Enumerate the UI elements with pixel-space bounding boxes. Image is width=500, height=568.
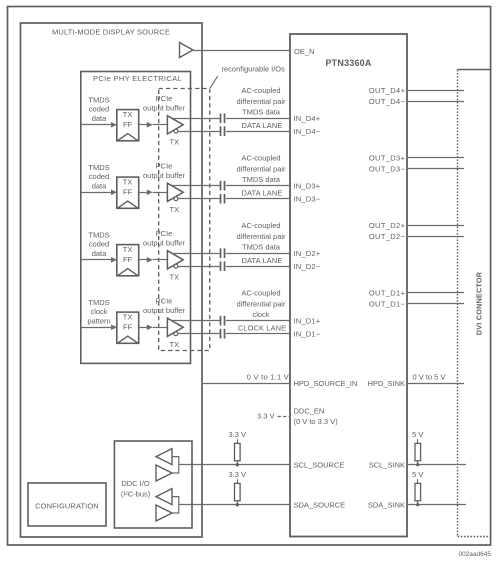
lead 5 V to resistor	[417, 479, 419, 483]
buffer DDC receiver (points left)	[156, 449, 172, 465]
wire buffer inverting output to IN_D2- (with AC coupling)	[178, 266, 220, 268]
svg-text:output buffer: output buffer	[143, 171, 185, 180]
block DVI CONNECTOR (dotted)	[458, 70, 491, 537]
wire SDA_SOURCE bus	[179, 504, 290, 506]
svg-text:TMDS data: TMDS data	[242, 175, 281, 184]
lead resistor to bus wire	[237, 461, 239, 465]
wire joining DDC buffer pair	[172, 457, 179, 473]
svg-text:IN_D2−: IN_D2−	[294, 262, 321, 271]
svg-text:IN_D1+: IN_D1+	[294, 316, 321, 325]
svg-text:data: data	[92, 114, 107, 123]
svg-text:clock: clock	[252, 310, 269, 319]
wire TX FF to PCIe output buffer channel D3	[139, 192, 148, 194]
lead resistor to bus wire	[417, 461, 419, 465]
wire OUT_D1+ to DVI connector	[407, 292, 464, 294]
wire OUT_D4- to DVI connector	[407, 101, 464, 103]
junction dot	[236, 463, 239, 466]
lead 3.3 V to resistor	[237, 439, 239, 443]
flip-flop TX FF channel D3	[117, 177, 139, 208]
svg-text:reconfigurable I/Os: reconfigurable I/Os	[222, 65, 286, 74]
svg-text:AC-coupled: AC-coupled	[241, 154, 280, 163]
svg-text:SCL_SINK: SCL_SINK	[369, 461, 405, 470]
flip-flop TX FF channel D4	[117, 110, 139, 141]
capacitor AC coupling on IN_D4+	[220, 113, 222, 123]
capacitor AC coupling on IN_D1-	[220, 329, 222, 339]
svg-text:OUT_D4−: OUT_D4−	[369, 97, 406, 106]
buffer PCIe TX channel D2	[167, 251, 183, 282]
svg-text:002aad645: 002aad645	[458, 551, 491, 558]
wire SCL_SINK bus to DVI connector	[407, 464, 466, 466]
wire buffer noninverting output to IN_D4+ (with AC coupling)	[171, 118, 220, 120]
svg-text:OUT_D4+: OUT_D4+	[369, 86, 406, 95]
svg-text:0 V to 5 V: 0 V to 5 V	[413, 372, 446, 381]
wire TMDS data into TX FF channel D4	[81, 124, 112, 126]
wire SDA_SINK bus to DVI connector	[407, 504, 466, 506]
capacitor AC coupling on IN_D2+	[220, 248, 222, 258]
svg-text:TX: TX	[170, 205, 180, 214]
svg-text:IN_D1−: IN_D1−	[294, 329, 321, 338]
svg-text:SDA_SINK: SDA_SINK	[368, 501, 405, 510]
wire OE_N	[193, 50, 290, 52]
resistor pull-up to 5 V	[415, 483, 421, 500]
svg-text:DATA LANE: DATA LANE	[241, 256, 282, 265]
svg-text:FF: FF	[123, 188, 133, 197]
svg-text:TMDS: TMDS	[88, 230, 109, 239]
wire stub DDC_EN	[278, 416, 291, 418]
svg-text:DDC_EN: DDC_EN	[294, 407, 325, 416]
svg-text:output buffer: output buffer	[143, 239, 185, 248]
wire buffer inverting output to IN_D3- (with AC coupling)	[178, 198, 220, 200]
svg-text:coded: coded	[89, 240, 109, 249]
svg-text:TMDS: TMDS	[88, 298, 109, 307]
svg-text:FF: FF	[123, 323, 133, 332]
svg-text:TX: TX	[170, 340, 180, 349]
wire OUT_D2+ to DVI connector	[407, 225, 464, 227]
block PCIe PHY ELECTRICAL	[81, 72, 191, 364]
flip-flop TX FF channel D1	[117, 312, 139, 343]
svg-text:CONFIGURATION: CONFIGURATION	[35, 502, 99, 511]
svg-text:HPD_SINK: HPD_SINK	[367, 379, 405, 388]
wire buffer inverting output to IN_D4- (with AC coupling)	[178, 131, 220, 133]
wire OUT_D2- to DVI connector	[407, 236, 464, 238]
svg-text:clock: clock	[90, 307, 107, 316]
capacitor AC coupling on IN_D4-	[220, 126, 222, 136]
wire SCL_SOURCE bus	[179, 464, 290, 466]
resistor pull-up to 5 V	[415, 443, 421, 460]
svg-text:TMDS: TMDS	[88, 163, 109, 172]
wire TX FF to PCIe output buffer channel D1	[139, 327, 148, 329]
svg-text:differential pair: differential pair	[236, 232, 286, 241]
svg-text:TX: TX	[123, 110, 133, 119]
svg-text:differential pair: differential pair	[236, 165, 286, 174]
capacitor AC coupling on IN_D2-	[220, 261, 222, 271]
svg-text:OUT_D3+: OUT_D3+	[369, 154, 406, 163]
svg-text:IN_D4−: IN_D4−	[294, 127, 321, 136]
svg-text:(0 V to 3.3 V): (0 V to 3.3 V)	[294, 417, 339, 426]
flip-flop TX FF channel D2	[117, 245, 139, 276]
svg-text:AC-coupled: AC-coupled	[241, 221, 280, 230]
lead 3.3 V to resistor	[237, 479, 239, 483]
svg-text:MULTI-MODE DISPLAY SOURCE: MULTI-MODE DISPLAY SOURCE	[52, 28, 170, 37]
junction dot	[236, 503, 239, 506]
svg-text:TMDS data: TMDS data	[242, 107, 281, 116]
svg-text:coded: coded	[89, 172, 109, 181]
wire TX FF to PCIe output buffer channel D2	[139, 259, 148, 261]
svg-text:3.3 V: 3.3 V	[229, 430, 247, 439]
lead 5 V to resistor	[417, 439, 419, 443]
wire OUT_D1- to DVI connector	[407, 303, 464, 305]
buffer OE_N driver	[180, 43, 194, 58]
svg-text:OUT_D3−: OUT_D3−	[369, 164, 406, 173]
wire TMDS data into TX FF channel D2	[81, 259, 112, 261]
svg-text:DVI CONNECTOR: DVI CONNECTOR	[474, 271, 483, 335]
lead resistor to bus wire	[417, 501, 419, 505]
svg-text:FF: FF	[123, 120, 133, 129]
leader line to reconfigurable I/Os region	[210, 76, 218, 88]
svg-text:(I²C-bus): (I²C-bus)	[121, 489, 151, 498]
svg-text:TX: TX	[123, 245, 133, 254]
buffer DDC driver (points right)	[156, 465, 172, 481]
dashed region reconfigurable I/Os	[159, 89, 210, 351]
svg-text:PCIe PHY ELECTRICAL: PCIe PHY ELECTRICAL	[93, 74, 182, 83]
svg-text:5 V: 5 V	[412, 430, 423, 439]
svg-text:3.3 V: 3.3 V	[229, 470, 247, 479]
svg-text:IN_D2+: IN_D2+	[294, 249, 321, 258]
buffer DDC receiver (points left)	[156, 489, 172, 505]
svg-text:OUT_D2−: OUT_D2−	[369, 232, 406, 241]
svg-text:HPD_SOURCE_IN: HPD_SOURCE_IN	[294, 379, 358, 388]
svg-text:output buffer: output buffer	[143, 306, 185, 315]
svg-text:FF: FF	[123, 255, 133, 264]
svg-text:output buffer: output buffer	[143, 104, 185, 113]
svg-text:IN_D3−: IN_D3−	[294, 194, 321, 203]
wire buffer inverting output to IN_D1- (with AC coupling)	[178, 333, 220, 335]
svg-text:TX: TX	[170, 137, 180, 146]
capacitor AC coupling on IN_D3+	[220, 181, 222, 191]
buffer PCIe TX channel D1	[167, 318, 183, 349]
svg-text:PCIe: PCIe	[156, 296, 173, 305]
svg-text:5 V: 5 V	[412, 470, 423, 479]
svg-text:differential pair: differential pair	[236, 97, 286, 106]
wire TMDS data into TX FF channel D1	[81, 327, 112, 329]
svg-text:DATA LANE: DATA LANE	[241, 189, 282, 198]
wire OUT_D3- to DVI connector	[407, 168, 464, 170]
svg-text:AC-coupled: AC-coupled	[241, 86, 280, 95]
svg-text:TX: TX	[123, 313, 133, 322]
svg-text:PCIe: PCIe	[156, 94, 173, 103]
junction dot	[416, 463, 419, 466]
svg-text:TX: TX	[123, 178, 133, 187]
resistor pull-up to 3.3 V	[235, 443, 241, 460]
wire OUT_D4+ to DVI connector	[407, 90, 464, 92]
block MULTI-MODE DISPLAY SOURCE	[21, 23, 203, 537]
block CONFIGURATION	[28, 483, 106, 526]
svg-text:SDA_SOURCE: SDA_SOURCE	[294, 501, 346, 510]
wire OUT_D3+ to DVI connector	[407, 157, 464, 159]
wire buffer noninverting output to IN_D1+ (with AC coupling)	[171, 320, 220, 322]
svg-text:pattern: pattern	[87, 317, 110, 326]
svg-text:coded: coded	[89, 105, 109, 114]
svg-text:PCIe: PCIe	[156, 229, 173, 238]
svg-text:DATA LANE: DATA LANE	[241, 121, 282, 130]
svg-text:CLOCK LANE: CLOCK LANE	[238, 324, 287, 333]
svg-text:TMDS: TMDS	[88, 95, 109, 104]
svg-text:data: data	[92, 249, 107, 258]
svg-text:OUT_D1−: OUT_D1−	[369, 299, 406, 308]
lead resistor to bus wire	[237, 501, 239, 505]
svg-text:SCL_SOURCE: SCL_SOURCE	[294, 461, 345, 470]
capacitor AC coupling on IN_D1+	[220, 316, 222, 326]
svg-text:IN_D3+: IN_D3+	[294, 181, 321, 190]
svg-text:TX: TX	[170, 272, 180, 281]
wire TMDS data into TX FF channel D3	[81, 192, 112, 194]
svg-text:PTN3360A: PTN3360A	[325, 58, 371, 68]
IC PTN3360A body	[290, 34, 407, 537]
svg-text:TMDS data: TMDS data	[242, 242, 281, 251]
wire joining DDC buffer pair	[172, 497, 179, 513]
resistor pull-up to 3.3 V	[235, 483, 241, 500]
buffer PCIe TX channel D3	[167, 183, 183, 214]
svg-text:IN_D4+: IN_D4+	[294, 114, 321, 123]
svg-text:data: data	[92, 182, 107, 191]
wire TX FF to PCIe output buffer channel D4	[139, 124, 148, 126]
svg-text:AC-coupled: AC-coupled	[241, 289, 280, 298]
buffer DDC driver (points right)	[156, 505, 172, 521]
buffer PCIe TX channel D4	[167, 116, 183, 147]
svg-text:DDC I/O: DDC I/O	[121, 479, 150, 488]
svg-text:differential pair: differential pair	[236, 300, 286, 309]
svg-text:OUT_D2+: OUT_D2+	[369, 221, 406, 230]
wire buffer noninverting output to IN_D2+ (with AC coupling)	[171, 253, 220, 255]
wire HPD_SOURCE_IN	[202, 383, 290, 385]
svg-text:0 V to 1.1 V: 0 V to 1.1 V	[247, 372, 289, 381]
svg-text:OE_N: OE_N	[294, 47, 314, 56]
svg-text:3.3 V: 3.3 V	[257, 412, 275, 421]
junction dot	[416, 503, 419, 506]
wire HPD_SINK to DVI connector	[407, 383, 464, 385]
svg-text:OUT_D1+: OUT_D1+	[369, 289, 406, 298]
block DDC I/O (I2C-bus)	[114, 441, 192, 528]
capacitor AC coupling on IN_D3-	[220, 194, 222, 204]
svg-text:PCIe: PCIe	[156, 161, 173, 170]
wire buffer noninverting output to IN_D3+ (with AC coupling)	[171, 185, 220, 187]
